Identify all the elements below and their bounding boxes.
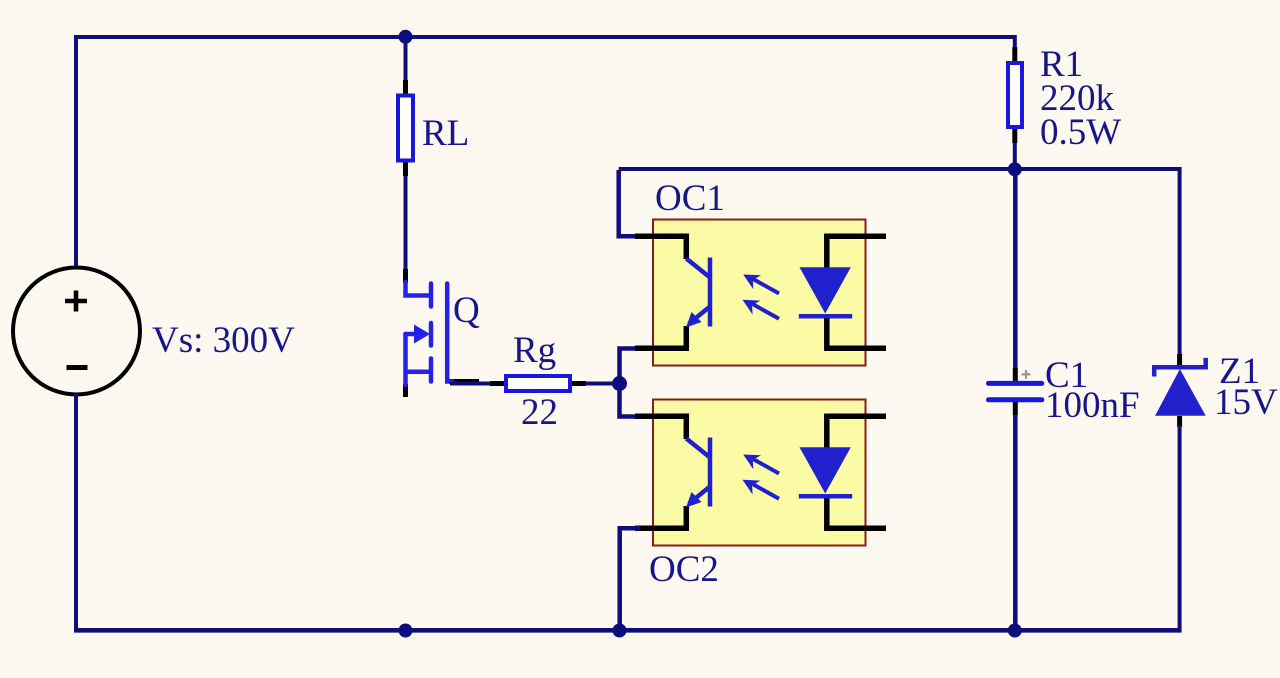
OC1 pin anode (top-right) [827, 236, 886, 268]
resistor R1 [1008, 47, 1022, 143]
optocoupler OC1 [635, 220, 886, 366]
wire: mid rail from OC1 to Z1 [619, 169, 1180, 356]
zener diode Z1 [1154, 354, 1206, 427]
wire: C1 to ground [1013, 415, 1018, 632]
OC2 pin collector (top-left) [635, 416, 686, 439]
junction node mid rail / R1 / C1 [1008, 162, 1022, 176]
wire: Rg to gate node [586, 382, 621, 386]
OC1 LED [800, 267, 851, 313]
svg-text:22: 22 [521, 392, 558, 433]
OC1 light arrows [753, 279, 779, 319]
OC2 pin cathode (bottom-right) [827, 495, 886, 528]
OC1 pin collector (top-left) [635, 236, 686, 259]
OC2 LED [800, 447, 851, 493]
junction node gate / OC1 / OC2 [612, 376, 627, 391]
wire: gate node down to OC2 collector pin [620, 383, 641, 417]
OC2 phototransistor [686, 438, 710, 507]
resistor Rg [506, 376, 586, 391]
wire: bottom ground rail [74, 628, 1182, 633]
svg-text:Rg: Rg [513, 330, 556, 371]
OC1 pin emitter (bottom-left) [635, 326, 686, 348]
OC1 package body [653, 220, 866, 366]
OC1 phototransistor [686, 258, 710, 327]
svg-text:100nF: 100nF [1045, 385, 1140, 426]
OC2 package body [653, 400, 866, 546]
junction node at top rail / RL [399, 30, 413, 44]
wire: top rail down to RL [404, 37, 408, 82]
svg-text:RL: RL [422, 113, 469, 154]
capacitor C1 [989, 368, 1042, 415]
svg-text:15V: 15V [1214, 382, 1278, 423]
wire: RL to Q drain [404, 176, 408, 271]
svg-text:OC1: OC1 [655, 178, 725, 219]
OC2 pin anode (top-right) [827, 416, 886, 448]
svg-text:Q: Q [453, 290, 480, 331]
OC2 light arrows [753, 459, 779, 499]
junction node at ground / OC2 [613, 624, 627, 638]
wire: Vs bottom to ground rail [74, 394, 78, 633]
wire: R1 to mid rail [1013, 143, 1017, 170]
svg-text:OC2: OC2 [649, 549, 719, 590]
junction node at ground / C1 [1008, 624, 1022, 638]
wire: mid rail down to C1 [1013, 169, 1018, 369]
OC1 pin cathode (bottom-right) [827, 315, 886, 348]
junction node at ground / Q source [399, 624, 413, 638]
wire: gate node up to OC1 emitter pin [620, 349, 641, 385]
OC2 pin emitter (bottom-left) [635, 506, 686, 528]
wire: Z1 to ground [1178, 425, 1182, 633]
wire: OC2 emitter pin to ground [620, 528, 640, 632]
wire: OC1 collector pin to mid rail [619, 170, 640, 236]
optocoupler OC2 [635, 400, 886, 546]
wire: Q gate to Rg [450, 382, 504, 386]
resistor RL [398, 80, 413, 176]
transistor Q (N-MOSFET) [406, 269, 480, 397]
svg-text:0.5W: 0.5W [1040, 112, 1121, 153]
wire: top rail from Vs to R1 [76, 37, 1015, 268]
voltage source Vs [13, 268, 140, 395]
svg-text:Vs: 300V: Vs: 300V [152, 320, 295, 361]
